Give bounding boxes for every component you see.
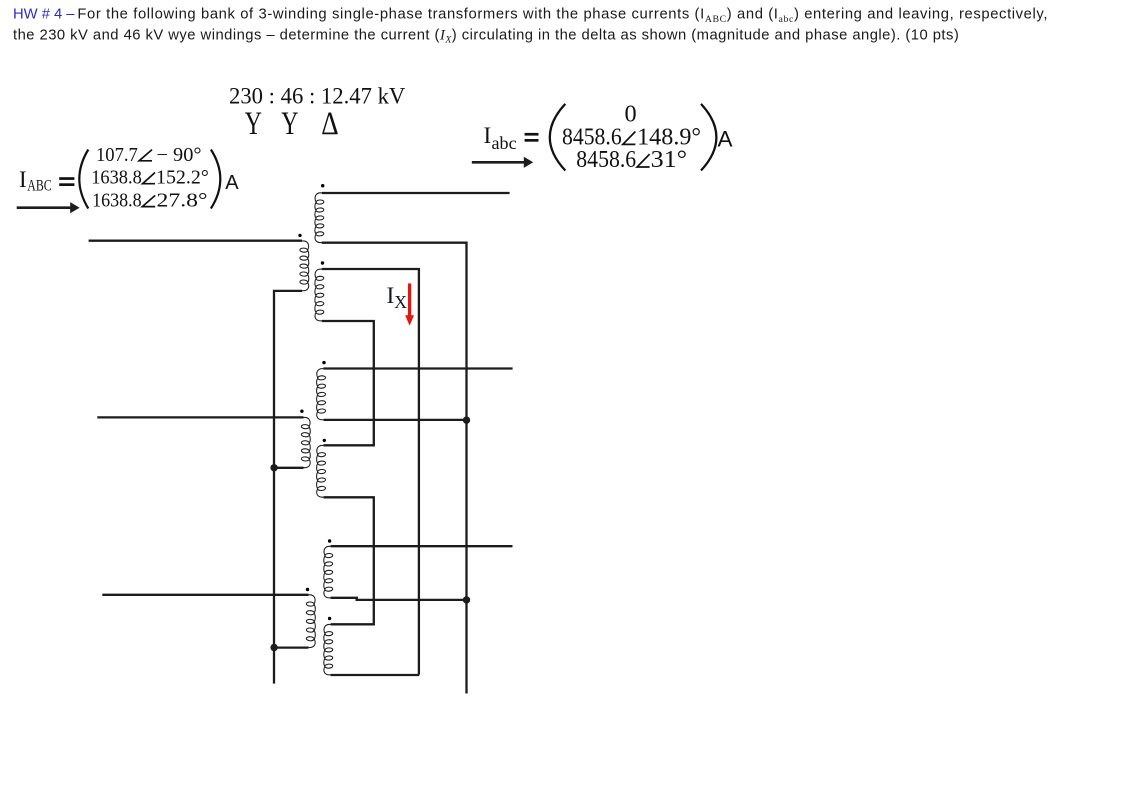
wire coil G bottom to right bus bbox=[356, 599, 467, 601]
svg-text:HW # 4 – For the following ba: HW # 4 – For the following bank of 3-win… bbox=[13, 7, 1048, 25]
svg-text:X: X bbox=[394, 292, 407, 312]
polarity dot coil F bbox=[300, 410, 303, 413]
svg-text:152.2°: 152.2° bbox=[156, 168, 209, 189]
polarity dot coil H bbox=[306, 588, 309, 591]
polarity dot coil C bbox=[321, 261, 324, 264]
wire phase C line bbox=[102, 594, 308, 596]
node junction right bus / coil D bottom bbox=[463, 416, 470, 423]
arrow under I_ABC bbox=[17, 206, 71, 209]
wire coil C top and delta branch down (Ix) bbox=[322, 269, 419, 675]
wire coil F bottom to left bus bbox=[274, 467, 303, 469]
current arrow Ix (red) bbox=[408, 283, 411, 316]
coil T2 46kV winding (F) bbox=[301, 417, 310, 467]
svg-text:Y: Y bbox=[281, 106, 298, 142]
coil T1 230kV winding (A) bbox=[315, 193, 324, 243]
svg-text:the 230 kV and 46 kV wye windi: the 230 kV and 46 kV wye windings – dete… bbox=[13, 27, 959, 45]
wire coil C bottom to coil E top (delta) bbox=[322, 321, 374, 445]
coil T3 12.47kV delta winding (I) bbox=[324, 624, 333, 674]
wire coil G bottom segment bbox=[331, 597, 358, 599]
svg-text:0: 0 bbox=[625, 101, 637, 128]
svg-text:I: I bbox=[484, 123, 492, 148]
wire coil A bottom to right bus bbox=[322, 243, 467, 694]
polarity dot coil A bbox=[321, 184, 324, 187]
svg-text:31°: 31° bbox=[651, 146, 688, 173]
svg-text:1638.8: 1638.8 bbox=[91, 168, 142, 189]
wire coil I bottom to delta branch bbox=[331, 674, 420, 676]
wire phase a line (coil A top) bbox=[322, 192, 510, 194]
wire coil B bottom to left bus bbox=[274, 291, 302, 684]
svg-text:Y: Y bbox=[245, 106, 262, 142]
svg-text:27.8°: 27.8° bbox=[157, 191, 208, 212]
svg-text:− 90°: − 90° bbox=[157, 145, 202, 166]
polarity dot coil E bbox=[323, 439, 326, 442]
coil T3 230kV winding (G) bbox=[324, 546, 333, 598]
node junction right bus / coil G bottom bbox=[463, 596, 470, 603]
svg-text:107.7: 107.7 bbox=[96, 145, 138, 166]
wire phase c line (coil G top) bbox=[331, 545, 513, 547]
svg-text:A: A bbox=[718, 126, 733, 151]
wire coil D bottom to right bus bbox=[324, 419, 467, 421]
polarity dot coil G bbox=[328, 539, 331, 542]
coil T3 46kV winding (H) bbox=[306, 595, 315, 648]
svg-text:ABC: ABC bbox=[27, 177, 51, 194]
node junction left bus / coil H bottom bbox=[270, 644, 277, 651]
wire phase b line (coil D top) bbox=[323, 367, 512, 369]
coil T1 46kV winding (B) bbox=[300, 241, 309, 291]
svg-text:1638.8: 1638.8 bbox=[92, 191, 142, 212]
svg-text:I: I bbox=[387, 283, 395, 309]
polarity dot coil I bbox=[328, 617, 331, 620]
coil T1 12.47kV delta winding (C) bbox=[315, 269, 324, 321]
arrow under I_abc bbox=[472, 161, 525, 164]
polarity dot coil D bbox=[322, 361, 325, 364]
node junction left bus / coil F bottom bbox=[270, 464, 277, 471]
polarity dot coil B bbox=[298, 234, 301, 237]
wire phase A line bbox=[89, 240, 302, 242]
svg-text:8458.6: 8458.6 bbox=[576, 146, 636, 173]
svg-text:A: A bbox=[225, 172, 239, 194]
svg-text:abc: abc bbox=[492, 133, 517, 153]
coil T2 12.47kV delta winding (E) bbox=[317, 445, 326, 497]
wire coil H bottom to left bus bbox=[274, 646, 308, 648]
coil T2 230kV winding (D) bbox=[317, 369, 326, 420]
wire coil E bottom to coil I top (delta) bbox=[324, 497, 374, 624]
svg-text:I: I bbox=[19, 167, 27, 192]
wire phase B line bbox=[97, 416, 303, 418]
svg-text:Δ: Δ bbox=[321, 106, 338, 142]
svg-text:230 : 46 : 12.47 kV: 230 : 46 : 12.47 kV bbox=[229, 83, 406, 108]
